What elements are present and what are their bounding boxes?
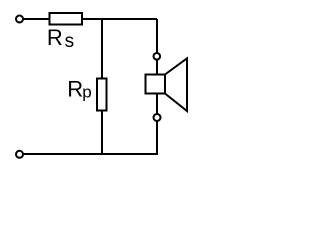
terminal T1 (input +) (16, 16, 23, 23)
wire Rp upper lead (101, 19, 103, 79)
wire speaker box to bottom terminal (156, 94, 158, 115)
wire T1 to Rs (24, 18, 50, 20)
resistor Rs (50, 13, 83, 25)
speaker LS1 box (145, 75, 165, 94)
svg-text:p: p (82, 82, 91, 101)
svg-text:s: s (65, 31, 75, 52)
svg-text:R: R (67, 77, 83, 102)
terminal T4 (speaker -) (154, 114, 161, 121)
wire top-right corner down to speaker terminal (156, 19, 158, 53)
terminal T3 (speaker +) (154, 53, 161, 60)
wire Rs to top-right corner (83, 18, 157, 20)
wire Rp lower lead (101, 111, 103, 154)
speaker LS1 cone (165, 58, 187, 111)
svg-text:R: R (47, 25, 63, 50)
wire terminal to speaker box (156, 60, 158, 75)
wire bottom terminal down and left along bottom (23, 121, 158, 154)
terminal T2 (input -) (16, 151, 23, 158)
resistor Rp (97, 79, 107, 111)
